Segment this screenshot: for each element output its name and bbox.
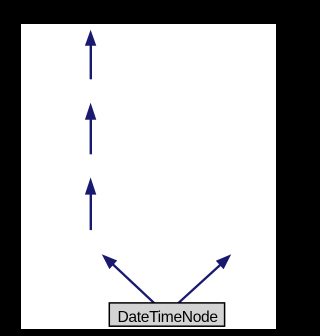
node box DateTimeNode <box>109 303 224 326</box>
arrow A4 (diagonal arrow up-left from DateTimeNode) <box>102 254 155 303</box>
arrow A1 (top vertical inheritance arrow) <box>85 30 96 80</box>
arrow A2 (second vertical inheritance arrow) <box>85 103 96 155</box>
arrow A3 (third vertical inheritance arrow) <box>85 177 96 230</box>
arrow A5 (diagonal arrow up-right from DateTimeNode) <box>178 254 231 303</box>
diagram white background panel <box>21 24 276 329</box>
svg-text:DateTimeNode: DateTimeNode <box>117 309 217 326</box>
